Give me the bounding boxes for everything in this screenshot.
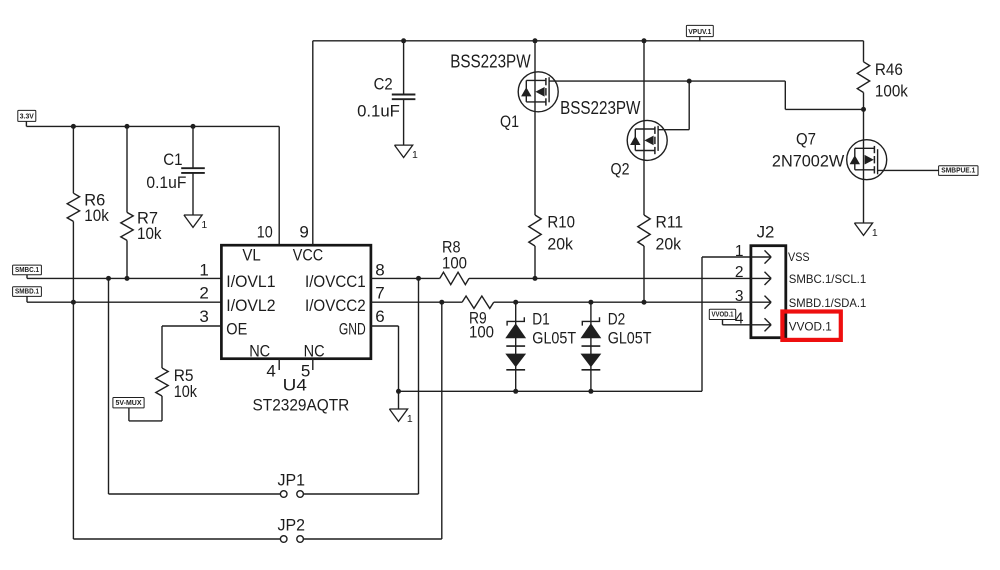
svg-text:2: 2	[735, 264, 744, 281]
net label SMBD.1	[13, 287, 42, 297]
svg-text:5V-MUX: 5V-MUX	[116, 398, 142, 407]
net label 3.3V	[18, 110, 36, 121]
wire 3.3V rail	[25, 121, 27, 126]
resistor R7	[126, 126, 128, 212]
svg-text:NC: NC	[304, 341, 325, 360]
svg-text:10k: 10k	[137, 224, 162, 243]
wire GND bottom rail	[399, 390, 703, 392]
ground below C2	[395, 145, 413, 157]
wire R8 to J2 pin2	[469, 277, 751, 279]
svg-text:3.3V: 3.3V	[20, 112, 35, 121]
svg-text:BSS223PW: BSS223PW	[450, 52, 530, 72]
svg-text:VVOD.1: VVOD.1	[712, 310, 735, 319]
node SMBC-JP1 junction	[106, 276, 111, 281]
svg-text:VSS: VSS	[788, 250, 810, 264]
resistor R10	[529, 215, 541, 246]
svg-text:C2: C2	[374, 75, 393, 94]
node 3.3V-R6 junction	[71, 124, 76, 129]
wire VPUV.1 stub	[699, 37, 701, 41]
node rail-Q2 junction	[642, 38, 647, 43]
wire Q1 gate rail	[549, 80, 689, 82]
svg-text:GL05T: GL05T	[532, 328, 576, 347]
svg-text:0.1uF: 0.1uF	[357, 102, 400, 121]
svg-text:C1: C1	[163, 150, 182, 169]
J2 pin 3 arrow	[751, 301, 771, 303]
J2 pin 4 arrow	[751, 324, 771, 326]
wire R7 to SMBC row	[126, 240, 128, 278]
node pin7-R11 junction	[642, 300, 647, 305]
svg-text:0.1uF: 0.1uF	[146, 173, 186, 192]
svg-text:Q1: Q1	[500, 112, 519, 131]
svg-text:20k: 20k	[547, 235, 573, 254]
svg-text:D2: D2	[608, 310, 626, 329]
wire VSS riser to J2 pin1	[701, 257, 703, 391]
svg-text:1: 1	[201, 219, 207, 231]
resistor R9	[462, 296, 494, 308]
net label SMBC.1	[13, 265, 42, 275]
svg-text:100: 100	[469, 323, 494, 342]
J2 pin 1 arrow	[751, 256, 771, 258]
node rail-C2 junction	[401, 38, 406, 43]
svg-text:2: 2	[199, 284, 208, 303]
svg-text:SMBC.1: SMBC.1	[15, 265, 40, 274]
diode D2 GL05T	[590, 302, 592, 391]
wire R10 to pin8 row	[534, 246, 536, 278]
node R46-Q7 junction	[861, 107, 866, 112]
wire JP2 right	[441, 302, 443, 539]
svg-text:10k: 10k	[174, 382, 198, 401]
wire R5 to 5V-MUX	[161, 396, 163, 421]
svg-text:10: 10	[257, 222, 273, 241]
svg-text:100: 100	[442, 254, 467, 273]
svg-text:1: 1	[407, 413, 413, 425]
svg-text:VVOD.1: VVOD.1	[789, 319, 832, 333]
wire gate rail to Q2 gate	[688, 81, 690, 130]
svg-text:1: 1	[199, 260, 208, 279]
svg-text:JP1: JP1	[278, 470, 306, 489]
svg-text:1: 1	[872, 227, 878, 239]
wire gate rail to R46 bottom	[689, 80, 785, 82]
node SMBD-R6 junction	[71, 300, 76, 305]
svg-text:6: 6	[375, 307, 384, 326]
svg-text:10k: 10k	[84, 206, 109, 225]
ground below Q7	[854, 223, 872, 235]
svg-text:100k: 100k	[875, 82, 908, 101]
wire JP2 left	[73, 538, 280, 540]
resistor R46	[863, 41, 865, 62]
svg-text:Q7: Q7	[796, 130, 816, 149]
wire Q2 source to R11	[643, 160, 645, 215]
resistor R6	[72, 126, 74, 193]
transistor Q2 BSS223PW	[643, 41, 645, 121]
capacitor C1	[192, 126, 194, 168]
wire SMBC.1 to U4 pin1	[26, 275, 28, 279]
capacitor C2	[403, 41, 405, 95]
wire R9 to J2 pin3	[494, 301, 751, 303]
red highlight box	[782, 312, 840, 340]
jumper JP1	[280, 491, 287, 498]
resistor R5	[162, 325, 221, 327]
resistor R11	[638, 215, 650, 246]
svg-text:I/OVCC1: I/OVCC1	[305, 272, 366, 291]
resistor R8	[440, 272, 469, 284]
wire R6 down to JP2 row	[72, 221, 74, 539]
wire SMBC to JP1 left	[108, 278, 110, 494]
svg-text:1: 1	[412, 149, 418, 161]
svg-text:VPUV.1: VPUV.1	[688, 27, 712, 36]
svg-text:JP2: JP2	[278, 515, 306, 534]
svg-text:BSS223PW: BSS223PW	[560, 98, 640, 118]
svg-text:I/OVCC2: I/OVCC2	[305, 296, 366, 315]
svg-text:NC: NC	[249, 341, 270, 360]
net label SMBPUE.1	[939, 166, 978, 176]
wire U4 pin7 row	[371, 301, 462, 303]
node gate rail junction	[687, 79, 692, 84]
J2 pin 2 arrow	[751, 277, 771, 279]
jumper JP2	[280, 536, 287, 543]
node pin7-JP2 junction	[439, 300, 444, 305]
svg-text:I/OVL2: I/OVL2	[226, 296, 275, 315]
svg-text:Q2: Q2	[611, 160, 630, 179]
wire U4 pin9 to rail	[312, 41, 314, 245]
wire Q7 source to ground	[863, 180, 865, 223]
node rail-Q1 junction	[533, 38, 538, 43]
wire Q1 source to R10	[534, 112, 536, 215]
wire U4 pin6 GND	[371, 325, 399, 327]
op IC U4 box	[221, 245, 371, 359]
svg-text:SMBD.1/SDA.1: SMBD.1/SDA.1	[789, 296, 867, 310]
svg-text:SMBD.1: SMBD.1	[15, 287, 40, 296]
transistor Q1 BSS223PW	[534, 41, 536, 72]
node 3.3V-C1 junction	[191, 124, 196, 129]
svg-text:GND: GND	[339, 320, 366, 339]
svg-text:4: 4	[266, 361, 275, 380]
wire Q7 gate to SMBPUE.1	[878, 169, 939, 171]
svg-text:SMBPUE.1: SMBPUE.1	[941, 166, 976, 175]
wire VCC top rail	[313, 40, 864, 42]
transistor Q7 2N7002W	[863, 109, 865, 139]
svg-text:R10: R10	[547, 213, 575, 232]
node 3.3V-R7 junction	[125, 124, 130, 129]
svg-text:3: 3	[735, 288, 744, 305]
net label VPUV.1	[686, 25, 713, 36]
svg-text:1: 1	[735, 243, 744, 260]
wire U4 pin8 row	[371, 277, 440, 279]
node SMBC-R7 junction	[125, 276, 130, 281]
svg-text:I/OVL1: I/OVL1	[226, 272, 275, 291]
wire J2 pin4 from WOD.1	[722, 319, 724, 325]
svg-text:VCC: VCC	[293, 245, 323, 264]
ground below U4	[398, 391, 400, 409]
node pin8-JP1 junction	[416, 276, 421, 281]
ground below C1	[184, 215, 202, 227]
svg-text:OE: OE	[226, 320, 247, 339]
wire R11 to pin7 row	[643, 246, 645, 302]
node rail-D1 junction	[513, 389, 518, 394]
svg-text:ST2329AQTR: ST2329AQTR	[253, 396, 350, 415]
svg-text:5: 5	[301, 361, 310, 380]
svg-text:20k: 20k	[656, 235, 682, 254]
wire JP1 right	[418, 278, 420, 494]
U4 pin 4 stub	[278, 359, 280, 370]
svg-text:R46: R46	[875, 60, 903, 79]
U4 pin 5 stub	[312, 359, 314, 370]
svg-text:2N7002W: 2N7002W	[772, 152, 844, 171]
node pin7-D1 junction	[513, 300, 518, 305]
wire U4 pin10 to 3.3V rail	[278, 126, 280, 245]
node rail-D2 junction	[588, 389, 593, 394]
svg-text:VL: VL	[242, 245, 260, 264]
svg-text:7: 7	[375, 284, 384, 303]
net label 5V-MUX	[113, 398, 144, 408]
node pin7-D2 junction	[588, 300, 593, 305]
wire SMBD.1 to U4 pin2	[26, 296, 28, 302]
svg-text:D1: D1	[532, 310, 550, 329]
svg-text:GL05T: GL05T	[608, 328, 652, 347]
svg-text:3: 3	[199, 307, 208, 326]
connector J2 box	[751, 246, 786, 338]
svg-text:9: 9	[299, 222, 308, 241]
svg-text:J2: J2	[757, 223, 775, 242]
svg-text:R11: R11	[656, 213, 684, 232]
svg-text:SMBC.1/SCL.1: SMBC.1/SCL.1	[789, 272, 867, 286]
node GND rail junction	[396, 389, 401, 394]
net label WOD.1	[709, 309, 735, 319]
svg-text:8: 8	[375, 260, 384, 279]
diode D1 GL05T	[515, 302, 517, 391]
node pin8-R10 junction	[533, 276, 538, 281]
